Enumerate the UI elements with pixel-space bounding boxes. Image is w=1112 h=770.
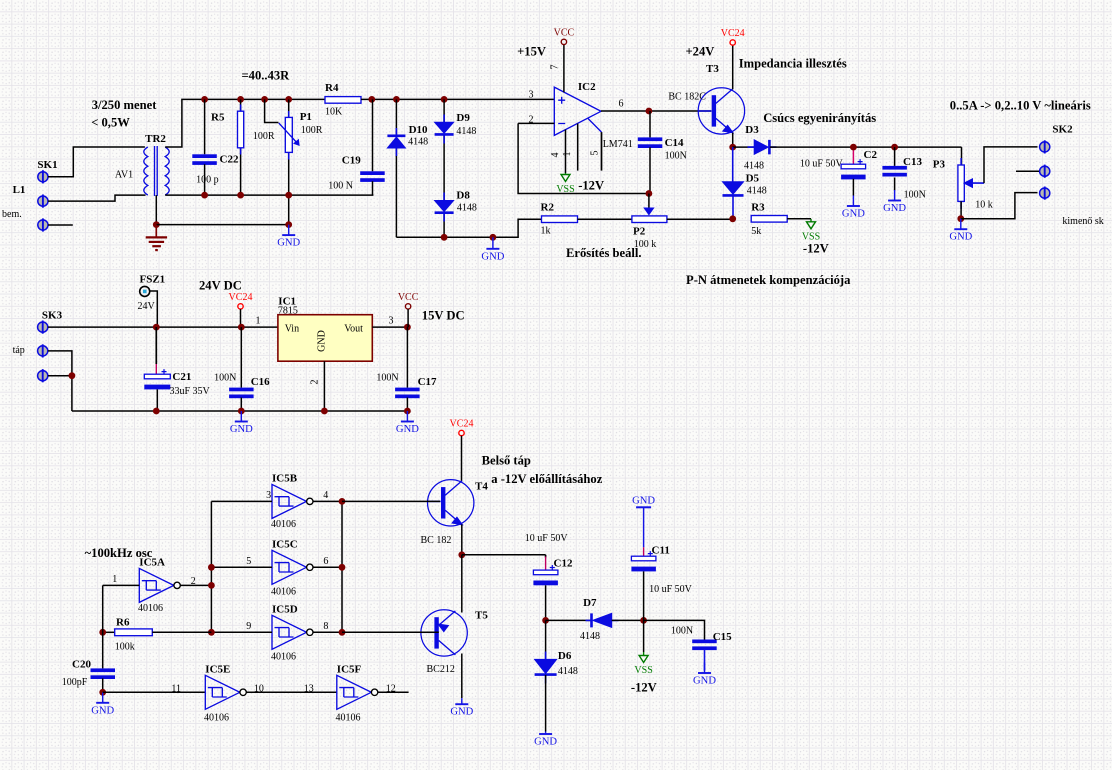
svg-text:FSZ1: FSZ1 — [140, 274, 166, 286]
capacitor C12 — [533, 565, 558, 585]
svg-text:40106: 40106 — [271, 587, 296, 598]
diode D7 — [592, 613, 612, 627]
junction top rail P1 — [285, 96, 292, 103]
transistor T3 base pin — [698, 110, 711, 112]
junction IC5A out — [208, 582, 215, 589]
svg-text:33uF 35V: 33uF 35V — [170, 386, 211, 397]
svg-text:100pF: 100pF — [62, 677, 88, 688]
svg-text:R4: R4 — [325, 82, 339, 94]
ground GND C2 — [842, 196, 865, 220]
wire junction to C15 — [644, 620, 705, 639]
svg-text:4148: 4148 — [744, 161, 764, 172]
wire C16 top — [240, 327, 242, 388]
svg-text:IC5E: IC5E — [205, 664, 230, 676]
wire D3 to C2 — [770, 146, 962, 148]
wire TR2 secondary bottom rail — [165, 194, 373, 196]
svg-text:C12: C12 — [554, 558, 573, 570]
svg-text:D8: D8 — [456, 190, 470, 202]
svg-text:VC24: VC24 — [450, 419, 474, 430]
svg-text:C14: C14 — [665, 137, 684, 149]
svg-text:Vin: Vin — [285, 324, 299, 335]
svg-text:Vout: Vout — [344, 324, 363, 335]
junction feedback P2 — [646, 190, 653, 197]
IC1 pin 3 wire — [372, 326, 407, 328]
svg-text:C11: C11 — [652, 545, 670, 557]
svg-text:8: 8 — [323, 621, 328, 632]
ground GND P3 — [949, 219, 972, 243]
inverter IC5A — [139, 568, 180, 602]
svg-text:5k: 5k — [751, 226, 761, 237]
wire R4 to opamp — [361, 98, 554, 100]
svg-text:3: 3 — [389, 316, 394, 327]
svg-text:100R: 100R — [253, 131, 275, 142]
junction rail D10 — [393, 96, 400, 103]
junction SK3 pad3 — [69, 372, 76, 379]
svg-text:T5: T5 — [475, 610, 488, 622]
connector SK2 pad 1 — [1040, 140, 1050, 153]
svg-text:C17: C17 — [418, 376, 437, 388]
svg-text:=40..43R: =40..43R — [242, 69, 291, 83]
wire VC24 to T4 collector — [461, 436, 463, 482]
wire P1 bottom — [288, 152, 290, 224]
svg-text:VC24: VC24 — [721, 28, 745, 39]
svg-text:100N: 100N — [904, 190, 926, 201]
power VC24 T3 — [721, 28, 745, 45]
diode D10 — [387, 136, 405, 148]
wire center tap to GND rail — [156, 224, 288, 226]
svg-text:10 k: 10 k — [975, 200, 993, 211]
capacitor C2 positive pin — [852, 150, 854, 164]
transistor T5 base pin — [421, 631, 434, 633]
wire T3 emitter — [732, 133, 734, 147]
svg-text:D9: D9 — [456, 112, 470, 124]
svg-text:VCC: VCC — [398, 292, 419, 303]
wire SK3 pad3 — [48, 375, 72, 377]
svg-text:Belső táp: Belső táp — [482, 454, 531, 468]
junction bottom rail C22 — [201, 192, 208, 199]
svg-text:D6: D6 — [558, 650, 572, 662]
svg-text:100k: 100k — [115, 642, 135, 653]
resistor R5 pin stubs — [240, 105, 242, 155]
capacitor C11 pin from GND — [643, 507, 645, 547]
svg-text:+24V: +24V — [686, 45, 715, 59]
svg-text:10 uF 50V: 10 uF 50V — [800, 159, 844, 170]
wire IC5C output — [313, 566, 342, 568]
svg-text:SK2: SK2 — [1052, 124, 1073, 136]
connector SK1 pad 2 — [38, 195, 48, 208]
svg-text:40106: 40106 — [271, 652, 296, 663]
svg-text:C2: C2 — [864, 149, 878, 161]
voltage regulator IC1 7815 — [278, 315, 372, 362]
svg-text:4148: 4148 — [456, 126, 476, 137]
power VSS R3 — [802, 219, 820, 243]
potentiometer P1 body — [285, 117, 292, 152]
wire inverting input — [518, 122, 554, 124]
ground GND T5 — [450, 698, 473, 718]
junction C12 D7 D6 — [542, 617, 549, 624]
ground GND C17 — [396, 411, 419, 435]
ground GND C20 — [91, 692, 114, 716]
svg-text:100R: 100R — [301, 125, 323, 136]
junction rail C19 — [368, 96, 375, 103]
diode D9 pin stubs — [443, 115, 445, 144]
wire D8 bottom — [443, 214, 445, 238]
svg-text:táp: táp — [13, 345, 25, 356]
junction rail D8 — [441, 234, 448, 241]
svg-text:Csúcs egyenirányítás: Csúcs egyenirányítás — [763, 111, 876, 125]
wire VC24 down — [240, 309, 242, 327]
wire D9 to D8 — [443, 135, 445, 200]
svg-text:4148: 4148 — [580, 631, 600, 642]
wire junction to D5 — [732, 147, 734, 182]
svg-text:7: 7 — [550, 65, 561, 70]
diode D6 pin stubs — [545, 652, 547, 684]
power VC24 IC1 — [229, 292, 253, 309]
wire IC5F output — [378, 691, 409, 693]
svg-text:R3: R3 — [751, 202, 765, 214]
svg-text:GND: GND — [396, 424, 419, 435]
wire C22 bottom — [204, 164, 206, 195]
svg-text:AV1: AV1 — [115, 170, 133, 181]
svg-text:GND: GND — [230, 424, 253, 435]
wire D5 bottom — [732, 196, 734, 219]
wire VCC down — [407, 309, 409, 327]
svg-text:BC 182C: BC 182C — [668, 92, 706, 103]
junction T4 T5 C12 — [458, 551, 465, 558]
diode D7 pin stubs — [586, 619, 619, 621]
wire C14 bottom — [649, 147, 651, 193]
svg-text:100 N: 100 N — [328, 181, 353, 192]
transistor T5 BC212 — [421, 610, 467, 656]
svg-text:GND: GND — [481, 251, 504, 262]
capacitor C21 positive pin — [155, 327, 157, 364]
resistor R6 — [115, 629, 153, 636]
svg-text:1: 1 — [112, 574, 117, 585]
transistor T3 BC182C — [698, 88, 744, 134]
svg-text:C19: C19 — [342, 155, 361, 167]
svg-text:6: 6 — [323, 556, 328, 567]
connector SK3 pad 3 — [38, 369, 48, 382]
svg-text:1: 1 — [562, 152, 573, 157]
wire TR2 center tap — [155, 195, 157, 225]
ground GND D6 — [534, 732, 557, 748]
ground GND under P1 — [277, 225, 300, 249]
diode D8 pin stubs — [443, 193, 445, 222]
svg-text:4148: 4148 — [747, 186, 767, 197]
junction P1 bottom rail — [285, 192, 292, 199]
svg-text:15V DC: 15V DC — [422, 309, 465, 323]
svg-text:SK3: SK3 — [42, 310, 63, 322]
svg-text:GND: GND — [277, 238, 300, 249]
connector SK3 pad 2 — [38, 344, 48, 357]
wire IC5B to T4 base — [342, 500, 440, 502]
svg-text:0..5A -> 0,2..10 V ~lineáris: 0..5A -> 0,2..10 V ~lineáris — [950, 99, 1091, 113]
wire R6 right — [152, 631, 211, 633]
connector SK2 pad 3 — [1040, 187, 1050, 200]
svg-text:3: 3 — [266, 490, 271, 501]
ground GND diode ladder — [481, 237, 504, 262]
svg-text:10K: 10K — [325, 107, 343, 118]
wire T5 collector down — [461, 654, 463, 699]
ground GND above C11 — [632, 495, 655, 507]
svg-text:GND: GND — [883, 203, 906, 214]
svg-text:R2: R2 — [541, 202, 555, 214]
resistor R2 — [542, 216, 578, 223]
svg-text:VSS: VSS — [634, 665, 652, 676]
wire SK1 pad1 to TR2 primary top — [48, 147, 145, 177]
diode D10 pin stubs — [395, 128, 397, 156]
svg-text:GND: GND — [949, 232, 972, 243]
svg-text:IC2: IC2 — [578, 81, 596, 93]
wire C17 bottom — [406, 398, 408, 412]
capacitor C19 — [360, 171, 385, 182]
svg-text:Erősítés beáll.: Erősítés beáll. — [566, 246, 642, 260]
wire IC5A input — [103, 584, 140, 586]
wire junction to D6 — [545, 620, 547, 659]
capacitor C22 — [192, 154, 217, 165]
svg-text:< 0,5W: < 0,5W — [91, 116, 130, 130]
wire C22 top — [204, 99, 206, 154]
wire IC5B input — [211, 500, 272, 502]
wire feedback loop — [518, 123, 649, 193]
svg-text:~100kHz osc: ~100kHz osc — [85, 546, 153, 560]
svg-text:3/250 menet: 3/250 menet — [92, 98, 158, 112]
svg-text:10 uF 50V: 10 uF 50V — [649, 584, 693, 595]
svg-text:IC5D: IC5D — [272, 604, 298, 616]
junction IC5D in — [208, 629, 215, 636]
wire IC5C input — [211, 566, 272, 568]
svg-text:24V DC: 24V DC — [199, 279, 242, 293]
inverter IC5B — [272, 484, 313, 518]
junction C20 bottom — [99, 689, 106, 696]
svg-text:1k: 1k — [541, 226, 551, 237]
svg-text:BC212: BC212 — [427, 664, 455, 675]
wire FSZ1 to rail — [150, 291, 158, 327]
junction C21 rail — [153, 408, 160, 415]
diode D8 — [435, 201, 454, 213]
wire C16 bottom — [240, 398, 242, 412]
svg-text:40106: 40106 — [271, 519, 296, 530]
connector SK1 pad 3 — [38, 218, 48, 231]
junction P3 GND — [957, 215, 964, 222]
transistor T4 BC182 — [428, 480, 474, 526]
svg-text:GND: GND — [842, 209, 865, 220]
wire IC5D input — [211, 631, 272, 633]
svg-text:-12V: -12V — [631, 681, 657, 695]
wire T4 emitter down — [461, 524, 463, 554]
capacitor C11 — [631, 551, 656, 571]
capacitor C14 — [638, 137, 663, 148]
fuse FSZ1 — [140, 286, 150, 296]
diode D9 — [435, 122, 454, 134]
power VC24 T4 — [450, 419, 474, 436]
svg-text:-12V: -12V — [803, 242, 829, 256]
transistor T4 base pin — [428, 500, 441, 502]
wire C14 top — [649, 111, 651, 137]
inverter IC5D — [272, 615, 313, 649]
svg-text:4148: 4148 — [457, 203, 477, 214]
junction C17 top — [404, 324, 411, 331]
svg-text:D5: D5 — [746, 173, 760, 185]
junction TR2 center tap — [153, 221, 160, 228]
svg-text:T4: T4 — [475, 481, 488, 493]
svg-text:5: 5 — [246, 556, 251, 567]
svg-text:BC 182: BC 182 — [421, 535, 452, 546]
svg-text:D3: D3 — [745, 124, 759, 136]
op-amp pin 4 — [565, 130, 567, 173]
junction bottom rail R5 — [237, 192, 244, 199]
junction top rail C22 — [201, 96, 208, 103]
svg-text:C22: C22 — [220, 154, 239, 166]
svg-text:C15: C15 — [713, 631, 732, 643]
earth ground — [146, 225, 167, 251]
wire P1 wiper — [265, 99, 279, 122]
svg-text:LM741: LM741 — [603, 139, 633, 150]
ground GND C15 — [693, 663, 716, 687]
wire C21 bottom — [156, 389, 158, 411]
op-amp pin 7 — [563, 45, 565, 93]
svg-text:GND: GND — [450, 707, 473, 718]
junction IC5D out — [339, 629, 346, 636]
wire C19 top — [372, 99, 374, 171]
op-amp pin 1 — [577, 124, 579, 171]
svg-text:P3: P3 — [933, 159, 946, 171]
diode D3 pin stubs — [748, 146, 777, 148]
wire P3 to SK2 pad3 — [961, 193, 1038, 219]
svg-text:TR2: TR2 — [145, 133, 166, 145]
capacitor C16 — [229, 388, 254, 399]
svg-text:2: 2 — [310, 380, 321, 385]
inverter IC5C — [272, 550, 313, 584]
svg-text:C21: C21 — [172, 371, 191, 383]
wire R5 bottom — [240, 148, 242, 195]
svg-text:+15V: +15V — [517, 45, 546, 59]
svg-text:P-N átmenetek kompenzációja: P-N átmenetek kompenzációja — [686, 273, 851, 287]
svg-text:11: 11 — [171, 684, 181, 695]
capacitor C20 — [91, 668, 116, 679]
capacitor C12 positive pin — [545, 555, 547, 558]
wire T5 emitter up — [461, 555, 463, 613]
wire IC5B output — [313, 500, 342, 502]
wire P3 wiper to SK2 — [984, 147, 1038, 183]
IC1 pin 2 — [323, 361, 325, 411]
potentiometer P2 body — [632, 216, 667, 223]
svg-text:IC5C: IC5C — [272, 539, 298, 551]
wire D10 bottom — [395, 148, 397, 237]
svg-text:100N: 100N — [214, 373, 236, 384]
wire R5 top — [240, 99, 242, 111]
wire C19 bottom — [372, 181, 374, 195]
svg-text:10 uF 50V: 10 uF 50V — [525, 533, 569, 544]
svg-text:D10: D10 — [409, 124, 428, 136]
svg-text:24V: 24V — [138, 301, 156, 312]
svg-text:4148: 4148 — [408, 137, 428, 148]
capacitor C2 — [841, 159, 866, 179]
transformer TR2 — [144, 146, 169, 196]
resistor R4 — [325, 97, 361, 104]
diode D6 — [535, 659, 557, 674]
junction rail GND — [490, 234, 497, 241]
svg-text:4: 4 — [323, 490, 328, 501]
wire P3 bottom — [960, 201, 962, 218]
inverter IC5E — [205, 675, 246, 709]
svg-text:a -12V előállításához: a -12V előállításához — [491, 472, 602, 486]
svg-text:IC5F: IC5F — [337, 664, 362, 676]
svg-text:100N: 100N — [376, 373, 398, 384]
svg-text:R6: R6 — [116, 617, 130, 629]
svg-text:40106: 40106 — [204, 713, 229, 724]
junction FSZ1 — [153, 324, 160, 331]
svg-text:VSS: VSS — [556, 184, 574, 195]
junction rail D9 — [441, 96, 448, 103]
potentiometer P3 wiper arrow — [965, 179, 984, 187]
svg-text:7815: 7815 — [278, 306, 298, 317]
wire D9 top — [443, 99, 445, 122]
junction IC5C out — [339, 564, 346, 571]
capacitor C17 — [395, 388, 420, 399]
svg-text:GND: GND — [316, 330, 327, 352]
wire P1 top — [288, 99, 290, 117]
connector SK2 pad 2 — [1040, 165, 1050, 178]
resistor R3 — [751, 216, 787, 223]
svg-text:40106: 40106 — [138, 603, 163, 614]
svg-text:VCC: VCC — [554, 27, 575, 38]
wire T4 emitter to C12 — [462, 554, 546, 556]
svg-text:5: 5 — [590, 151, 601, 156]
junction C16 rail — [238, 408, 245, 415]
wire IC5A output — [180, 584, 211, 586]
wire IC5D output — [313, 631, 342, 633]
wire SK1 pad2 to TR2 primary bottom — [48, 195, 146, 201]
svg-text:GND: GND — [693, 676, 716, 687]
wire IC5E output — [246, 691, 336, 693]
svg-text:3: 3 — [529, 90, 534, 101]
power VCC op-amp — [554, 27, 575, 44]
junction IC1 pin2 rail — [321, 408, 328, 415]
junction IC5B out — [339, 498, 346, 505]
svg-text:Impedancia illesztés: Impedancia illesztés — [739, 57, 847, 71]
wire C2 bottom — [852, 179, 854, 196]
wire R3 to VSS — [787, 218, 811, 220]
junction R6 left — [99, 629, 106, 636]
junction C16 top — [238, 324, 245, 331]
svg-text:P2: P2 — [633, 226, 646, 238]
wire D6 bottom — [545, 675, 547, 732]
wire T3 to D3 — [733, 146, 755, 148]
svg-text:100N: 100N — [671, 626, 693, 637]
wire TR2 secondary top to rail — [165, 99, 325, 147]
wire D7 to C11 junction — [612, 619, 644, 621]
junction T3 emitter — [729, 144, 736, 151]
junction C2 — [850, 144, 857, 151]
ground GND C16 — [230, 411, 253, 435]
wire SK1 pad3 stub — [48, 224, 73, 226]
svg-text:GND: GND — [534, 737, 557, 748]
svg-text:GND: GND — [91, 705, 114, 716]
svg-text:4: 4 — [550, 153, 561, 158]
wire C15 bottom — [704, 649, 706, 670]
svg-text:40106: 40106 — [336, 713, 361, 724]
junction C17 rail — [404, 408, 411, 415]
potentiometer P3 pin stubs — [960, 158, 962, 209]
wire diode ladder bottom rail — [396, 219, 542, 237]
svg-text:100 p: 100 p — [196, 175, 219, 186]
wire to P3 top — [961, 147, 963, 165]
junction output C14 — [646, 108, 653, 115]
diode D5 — [723, 182, 744, 196]
potentiometer P1 wiper arrow — [279, 123, 299, 145]
capacitor C13 — [882, 166, 907, 177]
